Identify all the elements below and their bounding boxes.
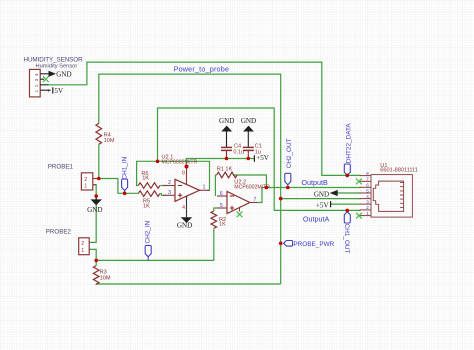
svg-text:DHT22_DATA: DHT22_DATA [345,123,352,164]
resistor R5 [138,191,160,210]
U1 pin 5 [360,188,371,193]
junction node CH2_OUT port [286,186,290,190]
svg-text:PROBE1: PROBE1 [48,164,74,171]
svg-text:1: 1 [84,183,87,189]
junction node PROBE2 pin1 / R3 [94,259,98,263]
wire R4 bottom to PROBE1 pin2 junction [98,145,100,179]
wire R2 top to U2.2 pin5 [214,208,218,211]
net port DHT22_DATA [344,123,352,176]
svg-text:4: 4 [366,194,369,199]
svg-text:4: 4 [34,73,39,76]
connector PROBE2 [46,229,89,255]
svg-text:OutputB: OutputB [301,178,328,187]
svg-text:1: 1 [203,185,206,191]
svg-text:2: 2 [81,241,84,247]
U2.1 pin 8 power [182,167,187,185]
svg-text:2: 2 [34,84,39,87]
net port CH1_IN [122,156,129,193]
svg-text:0.1u: 0.1u [233,150,244,156]
ground symbol above C1 [241,117,256,131]
svg-text:1K: 1K [219,222,226,228]
svg-text:2: 2 [84,177,87,183]
wire R1 feedback of U2.2 [215,175,266,196]
wire OutputB net (U2.2 output up and across to U1 pin6) [256,188,361,203]
svg-text:1: 1 [366,211,369,216]
svg-text:6: 6 [366,183,369,188]
wire probe1 pin1 to GND node [93,185,96,196]
junction node R4/PROBE1 pin2 [94,157,349,263]
resistor R3 [93,266,110,285]
svg-text:2: 2 [168,180,171,186]
connector PROBE1 [48,164,99,190]
net port CH2_IN [145,220,152,260]
wire U2.1 feedback loop [137,161,210,190]
svg-text:6601-88011111: 6601-88011111 [380,168,418,174]
U2.2 hidden pin stub and no-connect X [237,208,243,217]
no-connect X on U1 pin 7 [356,179,362,185]
sensor pin 3 [40,78,44,80]
wire Power_to_probe net (sensor pin2 up and across to U1 pin8) [49,62,361,175]
U1 pin 2 [360,205,371,210]
svg-text:8: 8 [366,171,369,176]
U2.1 pin 2 [163,180,175,186]
sensor pin 1 [40,89,50,91]
U1 pin 8 [360,171,371,176]
sensor pin 2 [40,84,48,86]
resistor R2 [211,211,226,228]
op-amp U2.1 [162,154,200,201]
wire CH2_IN net (probe2 pin1 down, across to R2 bottom) [89,229,214,261]
junction node U2.1 pin8 [185,165,189,169]
resistor R1 [217,167,237,178]
U2.1 pin 1 output [200,185,210,191]
resistor R4 [96,123,115,144]
junction node R1/OutputB [265,186,269,190]
sensor pin number 4 [34,73,39,92]
svg-text:3: 3 [168,190,171,196]
junction node DHT22_DATA port [346,174,350,178]
wire R5 jog to U2.1 pin3 [160,194,166,196]
svg-text:+: + [47,87,51,95]
ground symbol at U1 pin 5 [314,190,338,199]
svg-text:GND: GND [314,190,329,198]
U1 pin 3 [360,199,371,204]
svg-text:1: 1 [81,248,84,254]
U2.2 pin 7 output [250,197,257,203]
ground symbol above C4 [219,117,234,131]
op-amp U2.2 [227,179,270,213]
svg-text:4: 4 [182,205,185,211]
wire U1 pin4 from PROBE_PWR vertical [281,198,361,200]
svg-text:1: 1 [34,89,39,92]
svg-text:8: 8 [182,171,185,177]
svg-text:2: 2 [366,205,369,210]
svg-text:1K: 1K [143,203,150,209]
U2.2 pin 5 [217,203,227,209]
capacitor C4 [221,132,244,159]
svg-text:GND: GND [241,117,256,125]
ground symbol at sensor pin 4 [49,70,72,78]
sensor pin 4 [40,74,50,90]
wire U1 pin3 +5V stub [331,203,361,205]
junction node PROBE1 pin1 GND [94,194,98,198]
wire R6 to U2.1 pin2 [160,185,166,187]
junction node CH1_IN port [123,192,127,196]
resistor R6 [138,171,160,189]
svg-text:CH2_IN: CH2_IN [145,220,152,243]
svg-text:5V: 5V [54,87,64,95]
+5V symbol at sensor pin 1 [47,87,64,95]
svg-text:GND: GND [87,206,102,214]
U1 pin 1 [360,211,371,216]
svg-text:7: 7 [253,197,256,203]
junction node C4 [225,157,229,161]
junction node PROBE_PWR port [279,242,283,246]
svg-text:5: 5 [220,203,223,209]
svg-text:PROBE_PWR: PROBE_PWR [293,241,334,248]
svg-text:7: 7 [366,177,369,182]
svg-text:3: 3 [34,78,39,81]
net port CH1_OUT [343,212,350,254]
svg-text:MCP6002M/TR: MCP6002M/TR [162,159,198,165]
junction node feedback/OutputA [156,160,160,164]
svg-text:GND: GND [219,117,234,125]
svg-text:6: 6 [220,191,223,197]
connector HUMIDITY_SENSOR body [24,56,84,97]
+5V symbol at U1 pin 3 [316,201,331,209]
wire +5V rail above U2.1 [187,159,255,167]
net port CH2_OUT [285,138,293,187]
svg-text:+5V: +5V [316,201,330,209]
svg-text:1K: 1K [142,176,149,182]
svg-text:+5V: +5V [256,154,270,162]
+5V symbol at rail end [254,154,269,162]
svg-text:CH1_OUT: CH1_OUT [343,224,350,254]
svg-text:GND: GND [56,70,71,78]
wire U1 pin5 GND stub [338,192,361,194]
wire GND node down to probe2 pin2 [89,196,96,242]
no-connect X on sensor pin 3 [43,76,49,82]
U2.2 pin 6 [217,191,227,197]
svg-text:PROBE2: PROBE2 [46,229,72,236]
svg-text:C1: C1 [255,144,262,150]
junction node CH1_OUT port [346,209,350,213]
svg-text:5: 5 [366,188,369,193]
svg-text:Power_to_probe: Power_to_probe [174,64,230,73]
U2.1 pin 3 [163,190,175,196]
wire R3 bottom run [96,283,281,285]
svg-text:3: 3 [366,199,369,204]
svg-text:R1 1K: R1 1K [217,167,233,173]
ground symbol below PROBE1 [87,196,102,214]
svg-text:GND: GND [177,222,192,230]
U1 pin 7 [360,177,371,182]
svg-text:OutputA: OutputA [303,214,330,223]
svg-text:C4: C4 [234,144,241,150]
U1 pin 4 [360,194,371,199]
junction node PROBE_PWR/U1 pin4 [279,197,283,201]
U1 pin 6 [360,183,371,188]
wire CH1_IN (probe1 pin2 to R5 via port) [99,179,139,194]
svg-text:CH1_IN: CH1_IN [122,156,129,179]
svg-text:10M: 10M [104,138,115,144]
wire R3 top to junction [95,260,97,265]
junction node C1 [247,157,251,161]
svg-text:10M: 10M [100,276,111,282]
svg-text:CH2_OUT: CH2_OUT [286,138,293,168]
capacitor C1 [243,132,262,159]
svg-text:Humidity Sensor: Humidity Sensor [36,64,78,70]
svg-text:HUMIDITY_SENSOR: HUMIDITY_SENSOR [24,56,84,63]
net port PROBE_PWR [284,241,335,249]
no-connect X on U1 pin 1 [356,213,362,219]
wire PROBE_PWR top rail (to R4 and down right side to U1 pin4 / R3) [99,74,281,284]
connector U1 6601-88011111 [371,163,418,217]
wire OutputA net (from feedback dot up over and down to U1 pin2) [158,108,361,210]
U2.1 pin 4 and ground symbol [177,196,192,229]
